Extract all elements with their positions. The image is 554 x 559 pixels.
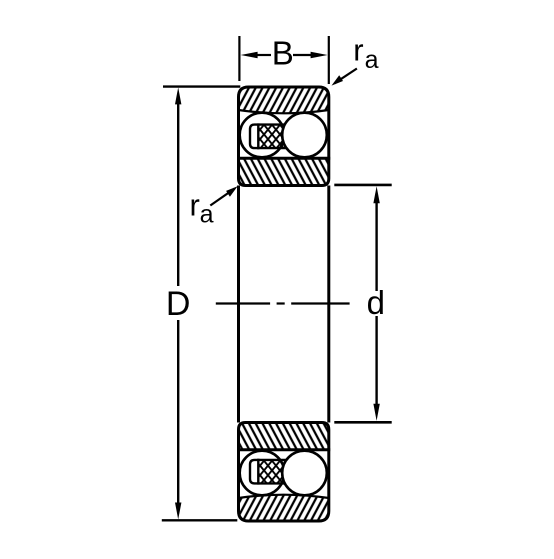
B extension line left — [238, 36, 240, 81]
svg-text:d: d — [367, 284, 385, 321]
outer ring (bottom) hatched area — [239, 495, 329, 521]
outer raceway arc (top) — [239, 110, 329, 113]
svg-text:B: B — [272, 34, 294, 71]
cage crosshatch fill (top) — [258, 125, 287, 149]
D arrow bottom — [175, 503, 181, 520]
d dimension line lower part — [375, 316, 377, 409]
cage section (bottom): rounded frame — [250, 460, 287, 484]
ball B1 (top left, with cage section) — [240, 113, 285, 158]
ra leader arrow (left) — [210, 189, 234, 206]
left bore edge line — [237, 186, 240, 423]
ra leader arrow (top right) — [335, 69, 357, 84]
outer ring (top) hatched area — [239, 87, 329, 113]
ball B3 (bottom left, with cage section) — [240, 451, 285, 496]
outer raceway arc (bottom) — [239, 495, 329, 498]
D extension line bottom — [162, 519, 238, 521]
inner ring (bottom) hatched area — [239, 423, 329, 450]
svg-text:D: D — [166, 285, 191, 323]
inner ring bottom surface line (bottom section) — [237, 448, 330, 451]
inner ring top surface line (top) — [237, 157, 330, 160]
top section outline — [239, 87, 329, 186]
B arrow left — [241, 52, 258, 59]
d arrow top — [373, 186, 379, 203]
cage divider line (top) — [257, 123, 259, 149]
cage section (top): rounded frame — [250, 125, 287, 149]
svg-text:a: a — [365, 46, 379, 74]
d arrow bottom — [373, 404, 379, 421]
D dimension line upper part — [177, 100, 179, 286]
center line (dash-dot) — [216, 302, 350, 304]
d extension line top — [334, 184, 391, 187]
B dimension line left part — [255, 54, 271, 56]
cage divider line (bottom) — [257, 459, 259, 485]
D extension line top — [163, 85, 240, 87]
svg-text:r: r — [353, 33, 363, 68]
svg-text:a: a — [200, 201, 214, 229]
B dimension line right part — [293, 54, 313, 56]
B extension line right — [328, 36, 330, 84]
D dimension line lower part — [177, 320, 179, 508]
ball B2 (top right) — [282, 113, 327, 158]
ball B4 (bottom right) — [282, 451, 327, 496]
B arrow right — [311, 52, 328, 59]
inner ring (top) hatched area — [239, 158, 329, 185]
bottom section outline — [239, 423, 329, 522]
d extension line bottom — [334, 421, 391, 424]
D arrow top — [175, 87, 181, 104]
d dimension line upper part — [375, 198, 377, 291]
right bore edge line — [327, 186, 330, 423]
svg-text:r: r — [190, 187, 200, 222]
cage crosshatch fill (bottom) — [258, 460, 287, 484]
